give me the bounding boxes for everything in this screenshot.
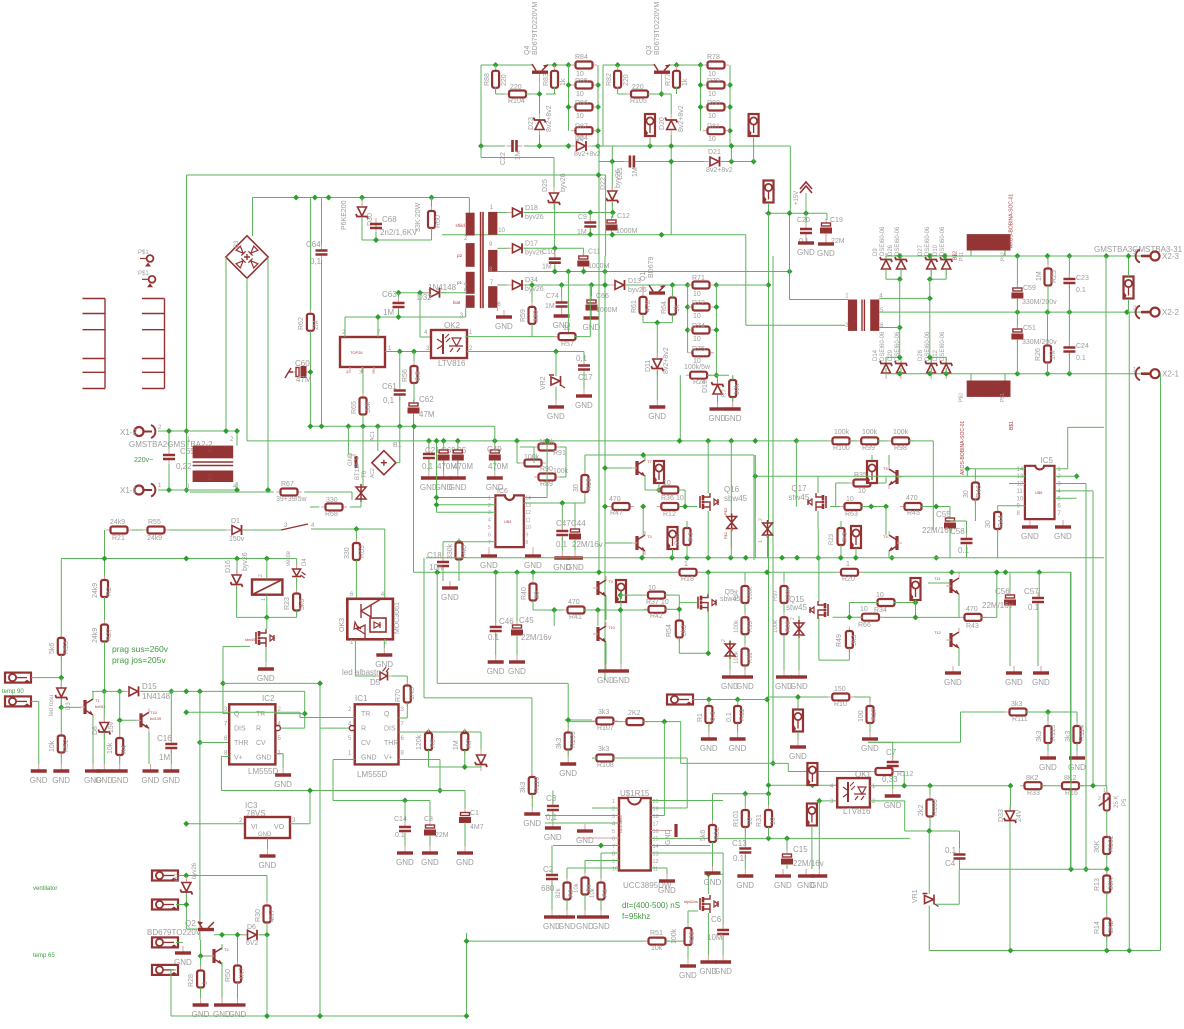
- wire R8 bottom: [584, 895, 586, 911]
- svg-text:39+39/5w: 39+39/5w: [276, 496, 307, 503]
- connector pin JP aux 1: [645, 114, 655, 137]
- svg-text:GND: GND: [721, 682, 739, 691]
- wire R51 row: [467, 940, 649, 942]
- wire C5 top: [457, 441, 459, 449]
- wire IC2 V+: [221, 755, 229, 757]
- junction: [602, 282, 608, 288]
- wire C19 top lead: [826, 213, 828, 220]
- junction: [889, 555, 895, 561]
- junction: [411, 349, 417, 355]
- capacitor C5: [457, 446, 459, 450]
- resistor R25: [1047, 264, 1049, 269]
- svg-text:C8: C8: [424, 816, 433, 823]
- wire rail to R57: [567, 272, 569, 334]
- svg-text:R47: R47: [610, 510, 623, 517]
- wire B$2 left pin: [970, 251, 972, 257]
- junction: [478, 143, 484, 149]
- svg-text:R98: R98: [894, 445, 907, 452]
- svg-text:2: 2: [1098, 796, 1101, 802]
- svg-text:P$1: P$1: [959, 252, 965, 261]
- ground C19: [825, 237, 827, 243]
- svg-text:VO: VO: [274, 824, 285, 831]
- svg-text:U$4: U$4: [504, 519, 512, 524]
- ground R1: [708, 732, 710, 738]
- svg-text:330: 330: [326, 497, 338, 504]
- svg-text:GND: GND: [583, 323, 601, 332]
- resistor R110: [531, 773, 533, 778]
- svg-text:R19: R19: [586, 478, 593, 491]
- resistor R66b: [858, 616, 863, 618]
- svg-text:100: 100: [858, 710, 865, 722]
- svg-text:R14: R14: [1094, 921, 1101, 934]
- junction: [727, 128, 733, 134]
- svg-text:10: 10: [693, 291, 701, 298]
- wire pin1 to D18: [497, 212, 509, 214]
- wire C4 bottom: [959, 861, 961, 870]
- svg-text:10k: 10k: [734, 383, 741, 395]
- wire C18 top: [442, 542, 444, 561]
- transformer TR1 secondary w2: [488, 250, 497, 272]
- svg-text:R26: R26: [1035, 348, 1042, 361]
- junction: [779, 555, 785, 561]
- svg-text:330k: 330k: [447, 543, 454, 559]
- ground C74: [561, 309, 563, 315]
- connector pin fb2: [807, 804, 817, 827]
- diode D6: [242, 930, 264, 940]
- zener D25: [548, 187, 560, 209]
- svg-text:DSEI60-06: DSEI60-06: [940, 226, 946, 256]
- svg-text:GND: GND: [1021, 532, 1039, 541]
- svg-text:1: 1: [261, 598, 267, 601]
- wire R53 top: [60, 559, 62, 639]
- capacitor C21b: [428, 448, 430, 453]
- svg-text:sbw45: sbw45: [720, 596, 740, 603]
- wire R89 right2: [560, 476, 566, 478]
- capacitor C44: [574, 525, 576, 529]
- wire C3 bottom: [552, 812, 554, 821]
- junction: [595, 82, 601, 88]
- svg-text:P$2: P$2: [959, 393, 965, 402]
- svg-text:100k: 100k: [671, 928, 678, 944]
- svg-text:GND: GND: [274, 780, 292, 789]
- wire aux top bus: [598, 145, 790, 147]
- svg-text:temp 90: temp 90: [2, 689, 24, 695]
- wire to row763: [680, 722, 682, 764]
- svg-text:470: 470: [568, 599, 580, 606]
- resistor R8: [584, 873, 586, 878]
- IC1 reset bubble: [349, 726, 354, 731]
- wire C74 top lead: [561, 285, 563, 301]
- wire D10 bottom: [945, 269, 947, 279]
- svg-text:100k: 100k: [893, 429, 909, 436]
- wire +15V rail: [765, 212, 827, 214]
- wire D33 bottom: [1009, 822, 1011, 951]
- junction: [901, 783, 907, 789]
- svg-text:3k3: 3k3: [598, 746, 609, 753]
- svg-text:C49: C49: [487, 445, 502, 454]
- wire OK1 pin4 row: [769, 784, 838, 786]
- wire pot top: [1106, 786, 1108, 794]
- wire UCC pin2: [592, 807, 619, 809]
- svg-text:11: 11: [525, 518, 530, 524]
- wire R88 to R104: [495, 87, 497, 94]
- wire T11 collector: [958, 572, 960, 574]
- wire pin b: [176, 904, 186, 906]
- wire to IC2 THR: [199, 691, 201, 742]
- svg-text:R69: R69: [359, 545, 366, 558]
- optocoupler OK2 LTV816: [431, 330, 467, 358]
- svg-text:8v2+8v2: 8v2+8v2: [706, 167, 733, 174]
- wire R7 bottom: [464, 750, 466, 767]
- svg-text:shild: shild: [456, 223, 466, 228]
- junction: [234, 556, 240, 562]
- wire R11 bottom: [737, 723, 739, 732]
- wire C51 top lead: [1016, 312, 1018, 328]
- junction: [766, 282, 772, 288]
- svg-text:2M: 2M: [313, 320, 320, 330]
- svg-text:14: 14: [1017, 467, 1024, 473]
- ground TR1 pin6: [503, 310, 505, 316]
- svg-text:D5: D5: [370, 678, 381, 687]
- junction: [742, 791, 748, 797]
- wire aux gnd down: [745, 256, 747, 325]
- ground pin2: [38, 764, 40, 770]
- thyristor Q16b: [727, 514, 737, 532]
- wire T3 collector: [642, 507, 644, 537]
- svg-text:temp 65: temp 65: [33, 953, 55, 959]
- svg-text:DIS: DIS: [234, 726, 246, 733]
- capacitor C22: [507, 145, 512, 147]
- junction: [587, 231, 593, 237]
- wire C11 bottom lead: [583, 266, 585, 272]
- resistor R14: [1106, 914, 1108, 919]
- svg-text:12: 12: [653, 859, 659, 865]
- wire UCC pin19: [651, 807, 687, 809]
- svg-text:R61: R61: [631, 300, 638, 313]
- resistor R82: [617, 66, 619, 71]
- wire R114 top: [1076, 712, 1078, 726]
- svg-text:U$1R15: U$1R15: [620, 789, 650, 798]
- junction: [595, 128, 601, 134]
- junction: [434, 569, 440, 575]
- junction: [1103, 253, 1109, 259]
- svg-text:R56: R56: [402, 369, 409, 382]
- svg-text:C20: C20: [797, 217, 810, 224]
- junction: [434, 438, 440, 444]
- wire R25 top lead: [1047, 256, 1049, 269]
- wire UCC pin9: [585, 860, 619, 862]
- svg-text:dt=(400-500) nS: dt=(400-500) nS: [622, 901, 680, 910]
- ground T14: [605, 664, 607, 670]
- wire C49 top: [494, 441, 496, 449]
- wire Q17 drain up: [817, 476, 819, 493]
- svg-text:C10: C10: [542, 249, 555, 256]
- junction: [596, 172, 602, 178]
- svg-text:R57: R57: [561, 341, 574, 348]
- svg-text:330M/200v: 330M/200v: [1022, 339, 1057, 346]
- capacitor C56: [1009, 591, 1011, 595]
- wire OK1 pin2 row: [870, 800, 905, 802]
- wire R70 to IC1 Q: [406, 703, 408, 719]
- junction: [668, 159, 674, 165]
- wire D27 top stub: [930, 256, 932, 259]
- svg-text:DSEI60-06: DSEI60-06: [925, 226, 931, 256]
- wire IC5 pin3 out: [1055, 483, 1087, 485]
- svg-text:R41: R41: [569, 614, 582, 621]
- svg-text:C57: C57: [1024, 587, 1039, 596]
- svg-text:GND: GND: [665, 829, 672, 845]
- wire R103 bottom: [929, 817, 931, 832]
- junction: [581, 269, 587, 275]
- wire R53 bottom: [60, 655, 62, 678]
- wire D26 bottom: [900, 269, 902, 279]
- junction: [1104, 866, 1110, 872]
- wire IC6 feed col: [436, 441, 438, 512]
- resistor R35: [849, 482, 854, 484]
- wire R100-R99: [849, 440, 862, 442]
- svg-text:0,22: 0,22: [176, 462, 192, 471]
- junction: [102, 556, 108, 562]
- wire C58 top: [966, 521, 968, 536]
- ground fb2: [805, 869, 807, 875]
- junction: [1045, 253, 1051, 259]
- wire IC5 pin1 out: [1055, 468, 1068, 470]
- svg-text:C11: C11: [588, 249, 600, 256]
- wire to T10 base: [119, 691, 121, 720]
- svg-text:GND: GND: [612, 676, 630, 685]
- wire R104 left: [496, 93, 510, 95]
- wire R27 bottom: [104, 642, 106, 692]
- IC IC1 LM555D: [355, 704, 399, 764]
- svg-text:2: 2: [790, 617, 796, 620]
- potentiometer P5: [1099, 789, 1110, 815]
- resistor R104: [505, 93, 510, 95]
- wire R108 left: [592, 757, 597, 759]
- wire D32 to OK2 pin4: [419, 293, 421, 337]
- svg-text:10: 10: [858, 488, 866, 495]
- wire B$1 left pin: [970, 374, 972, 381]
- svg-text:P6KE200: P6KE200: [341, 200, 348, 230]
- transistor T11: [946, 574, 959, 598]
- ground C5: [457, 471, 459, 477]
- junction: [933, 555, 939, 561]
- resistor R23b: [840, 524, 842, 529]
- wire gate column: [222, 646, 224, 713]
- shunt regulator VR1: [923, 894, 939, 907]
- wire C59 top lead: [1016, 256, 1018, 287]
- svg-text:R40: R40: [521, 587, 528, 600]
- wire D25 top: [553, 158, 555, 194]
- wire pin top: [871, 455, 873, 460]
- junction: [565, 717, 571, 723]
- resistor R20: [837, 571, 842, 573]
- svg-text:1: 1: [612, 799, 615, 805]
- wire Q5 drain: [707, 572, 709, 595]
- connector pin temp65 b: [152, 965, 178, 975]
- wire IC6 gnd b: [532, 547, 534, 549]
- junction: [838, 555, 844, 561]
- svg-text:R89: R89: [540, 481, 553, 488]
- diode D26 DSEI60-06: [895, 253, 907, 275]
- wire fb chain 1: [436, 572, 438, 683]
- junction: [728, 143, 734, 149]
- junction: [537, 143, 543, 149]
- svg-text:0.1: 0.1: [395, 832, 405, 839]
- junction: [359, 195, 365, 201]
- wire C21 node: [611, 146, 613, 162]
- svg-text:R66: R66: [858, 622, 871, 629]
- capacitor C47: [561, 525, 563, 530]
- svg-text:D25: D25: [542, 179, 549, 192]
- resistor R86: [571, 106, 576, 108]
- wire D9 bottom: [885, 269, 887, 279]
- junction: [464, 938, 470, 944]
- wire C47 top: [561, 503, 563, 529]
- capacitor C55: [949, 514, 951, 518]
- svg-text:R63: R63: [845, 511, 858, 518]
- junction: [706, 697, 712, 703]
- zener D11: [651, 353, 663, 375]
- wire thy2 to gnd: [767, 535, 769, 558]
- inductor B$1: [967, 381, 1011, 397]
- svg-text:1: 1: [1103, 788, 1106, 794]
- junction: [656, 487, 662, 493]
- svg-text:2K2: 2K2: [628, 710, 641, 717]
- wire D19 top: [717, 375, 719, 384]
- diode D12 DSEI60-06: [940, 357, 952, 379]
- wire R78 lead: [701, 64, 709, 66]
- svg-text:R91: R91: [553, 450, 566, 457]
- wire C6 bottom: [722, 936, 724, 955]
- svg-text:GND: GND: [797, 881, 815, 890]
- wire relay mosfet row: [237, 616, 297, 618]
- svg-text:2: 2: [758, 518, 764, 521]
- svg-text:R51: R51: [650, 930, 663, 937]
- wire R68 to T6: [350, 506, 361, 508]
- wire OK2 pin2 row: [467, 351, 584, 353]
- svg-text:82k: 82k: [556, 887, 562, 898]
- capacitor C17: [583, 360, 585, 365]
- wire IC2 GND down: [282, 754, 284, 768]
- connector pin drive6: [911, 578, 921, 601]
- junction: [566, 143, 572, 149]
- svg-text:R18: R18: [681, 576, 694, 583]
- svg-text:stw45: stw45: [788, 493, 809, 502]
- svg-text:bd139: bd139: [150, 716, 162, 721]
- ground T2: [221, 998, 223, 1004]
- svg-text:P$1: P$1: [138, 271, 149, 277]
- svg-text:V+: V+: [234, 755, 243, 762]
- svg-text:byv26: byv26: [615, 169, 622, 188]
- wire D4 to R23: [296, 578, 298, 595]
- svg-text:R32: R32: [714, 827, 721, 840]
- junction: [264, 614, 270, 620]
- ground relay mosfet: [265, 662, 267, 668]
- svg-text:D15: D15: [142, 682, 157, 691]
- ground IC5 a: [1029, 520, 1031, 526]
- resistor R17: [869, 702, 871, 707]
- wire R66 top: [413, 352, 415, 368]
- heatsink KK2: [164, 299, 166, 389]
- junction: [659, 232, 665, 238]
- mosfet Q5: [698, 594, 716, 612]
- relay K1 coil: [252, 580, 282, 595]
- diode D29 DSEI60-06: [895, 357, 907, 379]
- svg-text:VR2: VR2: [540, 376, 547, 390]
- junction: [317, 680, 323, 686]
- wire Q15 source down: [818, 618, 820, 660]
- wire C3 top: [552, 791, 554, 805]
- resistor R29: [687, 924, 689, 929]
- wire pin13 row: [523, 502, 585, 504]
- junction: [1014, 253, 1020, 259]
- junction: [764, 569, 770, 575]
- wire C18 bottom: [442, 568, 444, 581]
- svg-text:R11: R11: [739, 709, 746, 721]
- svg-text:220: 220: [632, 84, 644, 91]
- svg-text:D6: D6: [247, 924, 256, 931]
- wire C9 top lead: [589, 213, 591, 222]
- wire C62 bottom and drop: [413, 413, 415, 572]
- svg-text:R100: R100: [833, 445, 850, 452]
- wire D28 bottom stub: [930, 368, 932, 374]
- svg-text:15: 15: [653, 837, 659, 843]
- wire pin7 to D34: [497, 284, 509, 286]
- svg-text:AKOS-BOBINA-SOC-01: AKOS-BOBINA-SOC-01: [1009, 194, 1015, 248]
- wire R14 bottom: [1106, 936, 1108, 951]
- svg-text:R44: R44: [998, 515, 1005, 528]
- svg-text:X2-3: X2-3: [1162, 252, 1179, 261]
- wire pin bottom lead: [1128, 299, 1130, 312]
- wire R ladder right column: [597, 65, 599, 146]
- wire R67 to T6: [304, 491, 352, 493]
- svg-text:+15V: +15V: [794, 191, 800, 205]
- junction: [897, 371, 903, 377]
- resistor R113: [1047, 722, 1049, 727]
- junction: [220, 680, 226, 686]
- resistor R51: [644, 940, 649, 942]
- wire base to D23: [539, 94, 541, 114]
- svg-text:3: 3: [488, 510, 491, 516]
- wire OK3 pin1 down: [354, 639, 356, 676]
- IC IC6: [495, 495, 523, 547]
- svg-text:19: 19: [653, 807, 659, 813]
- svg-text:OK1: OK1: [855, 770, 872, 779]
- wire R42 right: [665, 608, 680, 610]
- wire row to IC1 R and bottom: [319, 683, 321, 1016]
- wire central bus A lower: [768, 785, 770, 794]
- svg-text:20: 20: [653, 799, 659, 805]
- transistor Q3: [654, 64, 670, 80]
- wire R90 left: [517, 462, 520, 464]
- svg-text:GND: GND: [566, 563, 584, 572]
- wire R103 top: [929, 786, 931, 800]
- wire R113 bottom: [1047, 743, 1049, 751]
- zener D2: [475, 749, 487, 771]
- resistor R75: [688, 352, 693, 354]
- svg-text:C60: C60: [295, 359, 310, 368]
- wire R23 bottom: [840, 545, 842, 558]
- ground C16: [170, 764, 172, 770]
- ground pin3: [182, 946, 184, 952]
- junction: [514, 569, 520, 575]
- wire R57 to row285: [589, 285, 591, 337]
- transistor T5: [889, 465, 902, 489]
- wire mosfet drain: [266, 617, 268, 629]
- svg-text:C18: C18: [427, 551, 442, 560]
- resistor R27: [104, 620, 106, 625]
- ground R113: [1047, 751, 1049, 757]
